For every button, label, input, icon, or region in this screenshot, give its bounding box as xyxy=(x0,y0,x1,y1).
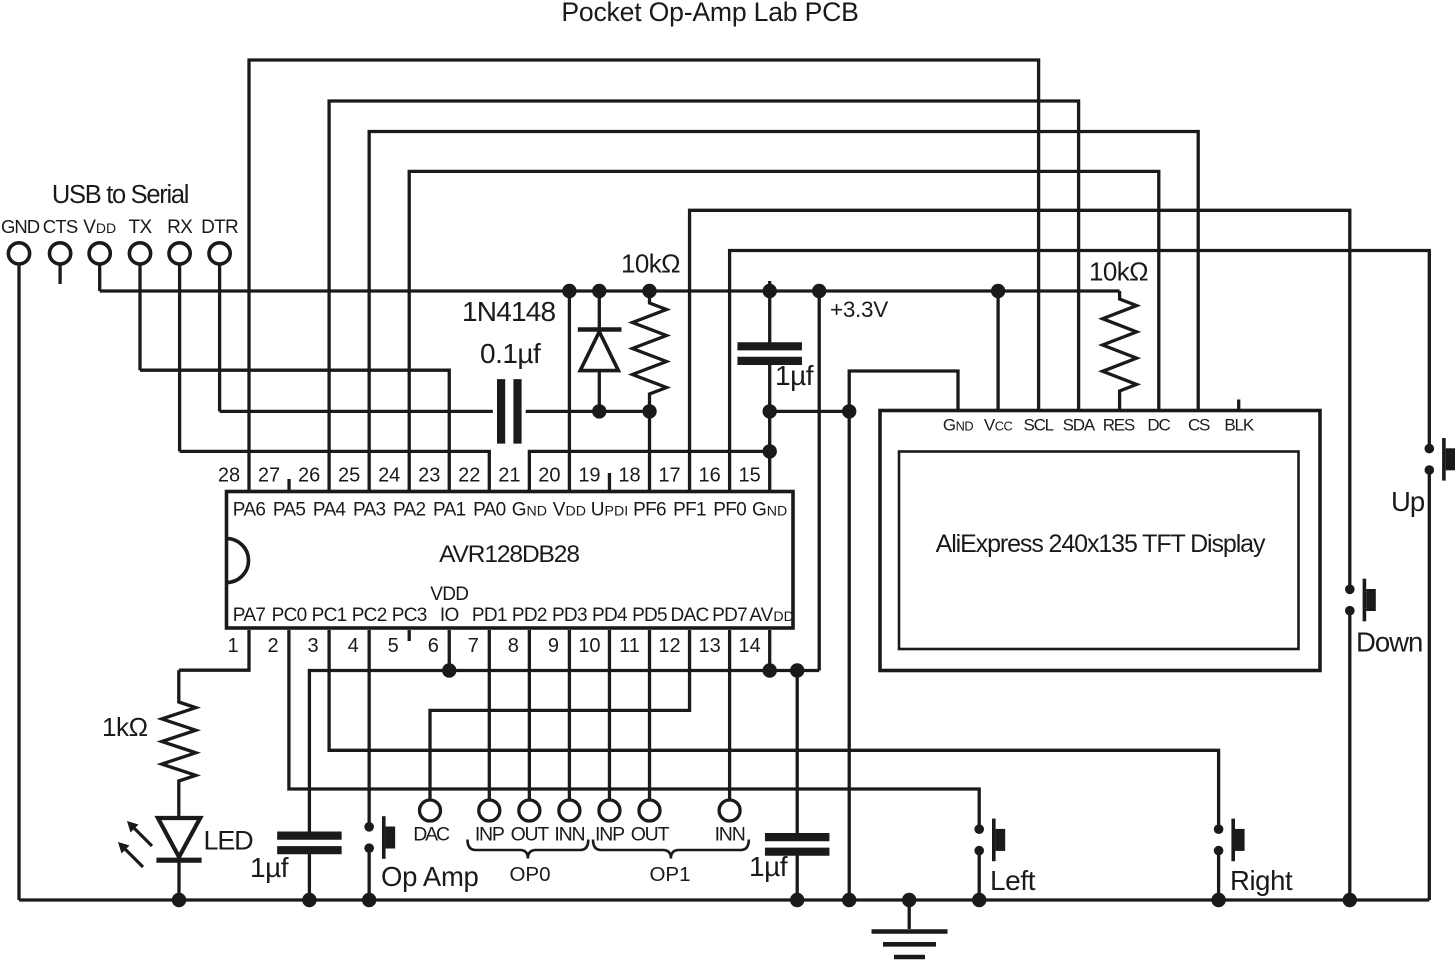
junction diode anode xyxy=(592,404,606,418)
wire 1uf right top xyxy=(796,671,799,834)
svg-text:17: 17 xyxy=(658,465,680,487)
wire DTR vertical xyxy=(218,264,221,411)
svg-text:9: 9 xyxy=(548,635,559,657)
wire RX to PA0 (pin22) xyxy=(180,451,490,490)
svg-text:16: 16 xyxy=(698,465,720,487)
svg-text:2: 2 xyxy=(267,635,278,657)
svg-text:UPDI: UPDI xyxy=(591,500,628,521)
svg-text:OUT: OUT xyxy=(511,824,550,846)
svg-text:DTR: DTR xyxy=(201,217,238,238)
svg-text:PA3: PA3 xyxy=(353,500,386,521)
svg-text:PA4: PA4 xyxy=(313,500,347,521)
svg-text:RES: RES xyxy=(1103,416,1135,435)
svg-text:21: 21 xyxy=(498,465,520,487)
svg-text:13: 13 xyxy=(698,635,720,657)
svg-text:26: 26 xyxy=(298,465,320,487)
capacitor 1uf vdd decoupling xyxy=(737,342,802,350)
svg-text:6: 6 xyxy=(428,635,439,657)
wire PA4 (pin26) to display SDA xyxy=(329,101,1079,490)
resistor 10k reset pullup xyxy=(633,291,667,411)
pad circle VDD xyxy=(89,243,110,264)
svg-text:22: 22 xyxy=(458,465,480,487)
svg-text:23: 23 xyxy=(418,465,440,487)
IC AVR128DB28 body xyxy=(227,492,794,629)
wire display VCC to +3.3V xyxy=(996,291,999,411)
svg-text:PA0: PA0 xyxy=(473,500,506,521)
junction pin14 rail xyxy=(763,663,777,677)
svg-text:28: 28 xyxy=(218,465,240,487)
svg-text:OUT: OUT xyxy=(631,824,670,846)
testpoint OUT xyxy=(519,800,540,821)
wire PD2 (pin8) to OUT testpoint xyxy=(528,630,531,800)
LED arrow 2 xyxy=(123,847,143,867)
wire PD4 (pin10) to INP testpoint xyxy=(608,630,611,800)
junction gnd rail at Left xyxy=(972,893,986,907)
svg-text:1µf: 1µf xyxy=(775,360,814,391)
capacitor 0.1uf xyxy=(497,379,505,444)
wire Down button to gnd xyxy=(1348,611,1351,900)
junction gnd rail at ground symbol xyxy=(902,893,916,907)
svg-text:PF6: PF6 xyxy=(633,500,666,521)
svg-text:Left: Left xyxy=(990,865,1036,896)
junction VDD pin20 xyxy=(562,284,576,298)
svg-text:1µf: 1µf xyxy=(749,851,788,882)
svg-text:INP: INP xyxy=(595,824,624,846)
wire pin14 AVDD to rail xyxy=(768,630,771,671)
junction 10k top xyxy=(642,284,656,298)
testpoint INN xyxy=(719,800,740,821)
diode 1N4148 anode lead xyxy=(598,371,601,412)
diode 1N4148 cathode lead xyxy=(598,291,601,330)
junction gnd rail at LED xyxy=(172,893,186,907)
wire 1uf right to gnd xyxy=(796,855,799,900)
svg-text:PC3: PC3 xyxy=(392,605,427,626)
svg-text:10kΩ: 10kΩ xyxy=(1089,257,1148,287)
junction gnd rail at Op Amp xyxy=(362,893,376,907)
wire DAC (pin12) to DAC testpoint xyxy=(430,630,690,800)
svg-text:INN: INN xyxy=(554,824,584,846)
svg-text:VDD: VDD xyxy=(83,217,116,238)
pad circle GND xyxy=(8,243,29,264)
capacitor 1uf left xyxy=(277,831,342,839)
svg-text:PF1: PF1 xyxy=(673,500,706,521)
svg-text:CTS: CTS xyxy=(43,216,78,237)
svg-text:GND: GND xyxy=(1,216,40,237)
stub pin19 UPDI xyxy=(608,473,611,490)
svg-text:SDA: SDA xyxy=(1063,416,1096,435)
svg-text:PA5: PA5 xyxy=(273,500,306,521)
svg-text:5: 5 xyxy=(388,635,399,657)
wire PD7 (pin13) to INN testpoint xyxy=(728,630,731,800)
svg-text:24: 24 xyxy=(378,465,400,487)
wire PF1 (pin17) to Down button xyxy=(690,210,1350,589)
LED cathode bar xyxy=(156,858,201,863)
junction right 1uf rail xyxy=(790,663,804,677)
pad circle RX xyxy=(169,243,190,264)
stub above 1uf xyxy=(768,281,771,291)
wire PD3 (pin9) to INN testpoint xyxy=(568,630,571,800)
wire Op Amp button to gnd xyxy=(367,849,370,900)
svg-text:PD2: PD2 xyxy=(512,605,547,626)
wire pin15 GND chain top xyxy=(768,291,771,343)
svg-text:PD1: PD1 xyxy=(472,605,507,626)
svg-text:25: 25 xyxy=(338,465,360,487)
svg-text:GND: GND xyxy=(943,416,973,435)
wire PC1 (pin3) to Right button xyxy=(329,630,1219,829)
svg-text:INN: INN xyxy=(715,824,745,846)
svg-text:15: 15 xyxy=(739,465,761,487)
testpoint INN xyxy=(559,800,580,821)
svg-text:Op Amp: Op Amp xyxy=(381,861,479,892)
wire Right button to gnd xyxy=(1217,851,1220,900)
pad circle CTS xyxy=(50,243,71,264)
LED lead to gnd xyxy=(177,860,180,900)
display inner box xyxy=(899,452,1299,650)
wire CTS stub xyxy=(58,264,61,284)
junction display VCC xyxy=(991,284,1005,298)
junction gnd rail at 1uf right xyxy=(790,893,804,907)
ground symbol xyxy=(908,900,911,929)
svg-text:1: 1 xyxy=(227,635,238,657)
svg-text:10kΩ: 10kΩ xyxy=(621,249,680,279)
svg-text:AliExpress 240x135 TFT Display: AliExpress 240x135 TFT Display xyxy=(936,530,1266,558)
svg-text:AVR128DB28: AVR128DB28 xyxy=(439,541,579,568)
wire GND pad down left side xyxy=(17,264,20,900)
wire PF0 (pin16) to Up button xyxy=(730,251,1430,491)
svg-text:PA1: PA1 xyxy=(433,500,466,521)
capacitor 1uf right xyxy=(765,833,830,841)
svg-text:GND: GND xyxy=(512,500,547,521)
junction +3.3V branch xyxy=(812,284,826,298)
wire VDD rail under IC xyxy=(309,671,819,833)
stub pin27 PA5 xyxy=(287,479,290,490)
svg-text:AVDD: AVDD xyxy=(749,605,793,626)
svg-text:SCL: SCL xyxy=(1023,416,1053,435)
svg-text:PD3: PD3 xyxy=(552,605,587,626)
diode 1N4148 triangle xyxy=(580,332,618,371)
svg-text:+3.3V: +3.3V xyxy=(830,297,888,322)
wire PD1 (pin7) to INP testpoint xyxy=(488,630,491,800)
diode 1N4148 cathode bar xyxy=(578,327,622,332)
button Left xyxy=(974,824,984,834)
svg-text:7: 7 xyxy=(468,635,479,657)
button Op Amp xyxy=(364,822,374,832)
svg-text:3: 3 xyxy=(308,635,319,657)
wire TX to PA1 (pin23) xyxy=(140,370,449,490)
svg-text:VDD: VDD xyxy=(430,584,468,605)
pad circle DTR xyxy=(209,243,230,264)
wire gnd node to gnd net xyxy=(770,410,850,413)
wire PD5 (pin11) to OUT testpoint xyxy=(648,630,651,800)
stub pin5 PC3 xyxy=(408,630,411,641)
wire PA3 (pin25) to display CS xyxy=(369,132,1198,491)
svg-text:18: 18 xyxy=(618,465,640,487)
pad circle TX xyxy=(129,243,150,264)
svg-text:DC: DC xyxy=(1147,416,1170,435)
wire DTR to 0.1uf cap xyxy=(220,410,493,413)
svg-text:PF0: PF0 xyxy=(713,500,746,521)
svg-text:Up: Up xyxy=(1391,486,1425,517)
wire Left button to gnd xyxy=(978,851,981,900)
brace OP0 xyxy=(468,840,589,859)
IC notch xyxy=(227,539,249,583)
wire 1uf left to gnd xyxy=(308,854,311,901)
junction gnd net top xyxy=(842,404,856,418)
wire VDD pin20 xyxy=(568,291,571,490)
svg-text:PC2: PC2 xyxy=(352,605,387,626)
svg-text:Down: Down xyxy=(1356,627,1422,658)
LED arrow 1 xyxy=(132,826,152,846)
testpoint OUT xyxy=(639,800,660,821)
svg-text:OP0: OP0 xyxy=(509,863,550,886)
junction pin6 rail xyxy=(442,663,456,677)
svg-text:TX: TX xyxy=(129,217,153,238)
svg-text:1kΩ: 1kΩ xyxy=(102,712,148,742)
svg-text:12: 12 xyxy=(658,635,680,657)
testpoint INP xyxy=(479,800,500,821)
junction gnd rail at 1uf left xyxy=(302,893,316,907)
svg-text:4: 4 xyxy=(348,635,359,657)
svg-text:PA7: PA7 xyxy=(233,605,266,626)
junction gnd rail at Down xyxy=(1343,893,1357,907)
svg-text:CS: CS xyxy=(1188,416,1210,435)
wire PA2 (pin24) to display DC xyxy=(409,171,1159,490)
junction 10k bottom / PF6 xyxy=(642,404,656,418)
wire Up button to gnd rail corner xyxy=(1428,470,1431,900)
wire PC0 (pin2) to Left button xyxy=(289,630,979,829)
svg-text:VDD: VDD xyxy=(553,500,586,521)
wire GND net vertical xyxy=(849,371,958,900)
svg-text:VCC: VCC xyxy=(984,416,1013,435)
LED triangle xyxy=(158,818,200,857)
wire RX vertical xyxy=(178,264,181,451)
svg-text:INP: INP xyxy=(475,824,504,846)
wire ground rail xyxy=(19,898,1429,901)
svg-text:27: 27 xyxy=(258,465,280,487)
junction diode top xyxy=(592,284,606,298)
junction 1uf top xyxy=(763,284,777,298)
svg-text:PA2: PA2 xyxy=(393,500,426,521)
svg-text:19: 19 xyxy=(578,465,600,487)
svg-text:11: 11 xyxy=(619,635,640,657)
display outer box xyxy=(880,411,1320,671)
junction 1uf bottom xyxy=(763,404,777,418)
wire PA6 (pin28) to display SCL xyxy=(249,60,1039,490)
svg-text:Right: Right xyxy=(1230,865,1293,896)
wire GND jog pin21 to pin15 xyxy=(529,451,769,490)
junction pin15 gnd xyxy=(763,444,777,458)
svg-text:RX: RX xyxy=(167,217,193,238)
svg-text:DAC: DAC xyxy=(413,824,450,846)
svg-text:DAC: DAC xyxy=(671,605,709,626)
svg-text:GND: GND xyxy=(752,500,787,521)
svg-text:1µf: 1µf xyxy=(250,852,289,883)
wire PA7 (pin1) to 1k resistor xyxy=(179,630,249,670)
button Up xyxy=(1425,444,1435,454)
brace OP1 xyxy=(593,840,749,859)
wire pin6 VDDIO to rail xyxy=(448,630,451,671)
svg-text:PC1: PC1 xyxy=(312,605,347,626)
svg-text:8: 8 xyxy=(508,635,519,657)
button Down xyxy=(1345,585,1355,595)
testpoint DAC xyxy=(420,800,441,821)
svg-text:14: 14 xyxy=(739,635,761,657)
svg-text:PA6: PA6 xyxy=(233,500,266,521)
svg-text:PD5: PD5 xyxy=(632,605,667,626)
testpoint INP xyxy=(599,800,620,821)
svg-text:LED: LED xyxy=(204,825,254,855)
wire PC2 (pin4) to Op Amp button xyxy=(367,630,370,827)
svg-text:IO: IO xyxy=(440,605,459,626)
svg-text:PD7: PD7 xyxy=(712,605,747,626)
svg-text:OP1: OP1 xyxy=(649,863,690,886)
wire PF6 (pin18) to reset node xyxy=(648,411,651,490)
wire display BLK stub xyxy=(1237,400,1240,411)
wire +3.3V branch down to VDD rail xyxy=(818,291,821,671)
junction gnd rail at Right xyxy=(1211,893,1225,907)
svg-text:1N4148: 1N4148 xyxy=(462,296,556,327)
junction gnd rail at gnd net xyxy=(842,893,856,907)
svg-text:10: 10 xyxy=(578,635,600,657)
wire reset node xyxy=(526,410,650,413)
resistor 1k LED xyxy=(162,670,196,818)
wire cap to gnd jog xyxy=(768,365,771,490)
svg-text:PD4: PD4 xyxy=(592,605,628,626)
svg-text:Pocket Op-Amp Lab PCB: Pocket Op-Amp Lab PCB xyxy=(561,0,858,27)
wire +3.3V main rail xyxy=(100,289,1120,292)
resistor 10k display RES pullup xyxy=(1103,291,1137,411)
svg-text:PC0: PC0 xyxy=(272,605,307,626)
svg-text:BLK: BLK xyxy=(1224,416,1254,435)
wire VDD pad to +3.3V rail xyxy=(98,264,101,291)
svg-text:USB to Serial: USB to Serial xyxy=(52,181,188,209)
svg-text:0.1µf: 0.1µf xyxy=(480,338,541,369)
svg-text:20: 20 xyxy=(538,465,560,487)
wire TX vertical xyxy=(138,264,141,370)
button Right xyxy=(1214,824,1224,834)
